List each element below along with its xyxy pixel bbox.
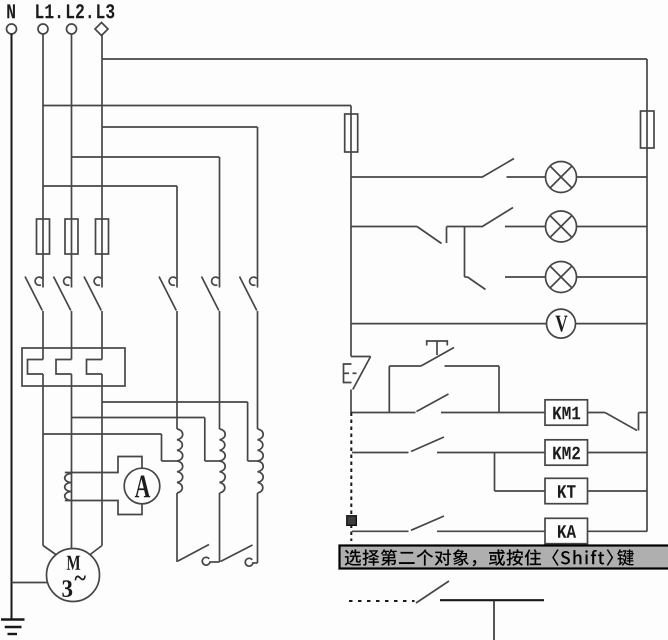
bottom tee wire xyxy=(440,599,544,601)
grip point square xyxy=(347,516,357,526)
terminal L1 xyxy=(38,24,48,34)
contact KM pole 1 xyxy=(176,269,178,288)
wire L1 tap to coil T1 xyxy=(43,433,162,435)
KA rung wire right xyxy=(588,530,648,532)
KA rung wire left xyxy=(352,530,409,532)
KM2 rung contact blade xyxy=(411,437,444,452)
start button SB2 blade xyxy=(421,348,454,367)
wire L3 tap to coil T3 xyxy=(102,401,248,403)
start branch left vertical xyxy=(388,366,390,413)
wire CT to ammeter bottom xyxy=(65,501,142,515)
rung1 wire left xyxy=(351,176,482,178)
terminal N xyxy=(7,24,17,34)
voltmeter wire to right rail xyxy=(576,323,648,325)
wire L1 below thermal relay xyxy=(42,374,44,546)
wire L1 to thermal relay xyxy=(42,311,44,360)
wire L2 to thermal relay xyxy=(71,311,73,360)
lamp HL1 xyxy=(546,162,577,193)
wire L2 branch to column 2 xyxy=(72,156,220,158)
rung3 wire right of switch xyxy=(505,276,546,278)
wire L3 vertical upper xyxy=(101,34,103,269)
switch QS pole 2 xyxy=(71,269,73,288)
voltmeter rung wire left xyxy=(351,323,547,325)
status prompt bar xyxy=(340,546,668,569)
stop button SB1 fixed bar xyxy=(351,356,371,358)
wire coil T3 bottom xyxy=(257,493,259,563)
wire N to motor xyxy=(12,582,49,584)
wire coil T2 bottom xyxy=(219,493,221,562)
contact KM pole 2 xyxy=(219,269,221,288)
coil KA box xyxy=(545,518,588,543)
KT rung wire left xyxy=(495,490,546,492)
terminal L3 (diamond) xyxy=(95,23,108,36)
wire KM2 rung to KT rung xyxy=(494,453,496,492)
thermal relay heater element xyxy=(28,360,44,375)
autotransformer coil T2 xyxy=(220,429,226,493)
autotransformer coil T1 xyxy=(177,429,183,493)
KM1 rung wire mid xyxy=(441,412,545,414)
status prompt text xyxy=(345,549,361,565)
lamp HL3 xyxy=(546,262,577,293)
wire L2 below thermal relay xyxy=(71,374,73,550)
wire L3 to right rail top xyxy=(102,58,647,60)
KM1 rung contact blade xyxy=(417,394,449,412)
wire L1 branch to column 1 xyxy=(43,185,177,187)
voltmeter V xyxy=(547,309,576,338)
KA rung wire mid xyxy=(437,530,545,532)
bottom switch blade xyxy=(416,581,449,603)
start branch wire right xyxy=(445,365,500,367)
wire L3 below thermal relay xyxy=(101,374,103,546)
rung2 wire left xyxy=(351,226,417,228)
wire column1 to coil xyxy=(176,311,178,429)
coil KT box xyxy=(545,478,588,503)
fuse FU3 xyxy=(96,219,109,254)
wire coil T1 bottom xyxy=(176,493,178,562)
rung2 NC contact xyxy=(417,227,442,244)
rung3 wire to right rail xyxy=(577,276,648,278)
terminal label N xyxy=(7,4,15,18)
ammeter A xyxy=(124,468,160,504)
coil KM1 box xyxy=(545,400,588,425)
control right rail xyxy=(646,59,648,532)
control left rail lower xyxy=(350,390,352,414)
stop button SB1 actuator xyxy=(344,364,352,383)
start branch right vertical xyxy=(498,366,500,413)
wire L2 tap to coil T2 xyxy=(72,417,205,419)
contact KM pole 3 xyxy=(257,269,259,288)
coil KM2 box xyxy=(545,440,588,465)
rung1 wire right of switch xyxy=(507,176,546,178)
KM2 rung wire mid xyxy=(437,452,545,454)
switch QS pole 1 xyxy=(42,269,44,288)
star contact 1 hook xyxy=(210,561,220,563)
rung2 wire mid xyxy=(447,226,482,228)
terminal L2 xyxy=(67,24,77,34)
autotransformer coil T3 xyxy=(258,429,264,493)
rung2 switch blade xyxy=(482,208,514,228)
terminal label L2 xyxy=(67,4,74,18)
stop button SB1 blade xyxy=(353,357,371,390)
wire L3 into motor xyxy=(90,546,103,556)
wire CT to ammeter top xyxy=(65,457,142,473)
KT rung wire right xyxy=(588,490,648,492)
wire L1 into motor xyxy=(43,546,57,556)
KM2 rung wire left xyxy=(352,452,409,454)
star contact 2 blade xyxy=(221,545,253,562)
KA rung contact blade xyxy=(411,516,444,530)
rung2 wire right of switch xyxy=(505,226,546,228)
wire L3 branch to column 3 xyxy=(102,126,258,128)
star contact 1 blade xyxy=(178,545,209,562)
start button SB2 actuator xyxy=(427,341,448,346)
rung1 switch blade xyxy=(482,159,515,178)
wire rung2 to rung3 xyxy=(464,227,466,278)
selected wire 2 (dotted) xyxy=(349,600,415,602)
KM2 interlock NC contact xyxy=(588,412,606,414)
start branch wire left xyxy=(389,365,421,367)
motor M 3~ xyxy=(47,549,100,602)
KM1 rung wire left xyxy=(351,412,416,414)
wire L1 to control left rail xyxy=(43,105,351,107)
wire L1 vertical upper xyxy=(42,34,44,269)
wire L2 vertical upper xyxy=(71,34,73,269)
thermal relay FR box xyxy=(22,348,125,386)
current transformer on L2 xyxy=(65,474,72,501)
wire column3 to coil xyxy=(257,311,259,429)
KM2 rung wire right xyxy=(588,452,648,454)
wire L3 to thermal relay xyxy=(101,311,103,360)
fuse FU2 xyxy=(65,219,78,254)
thermal relay heater element xyxy=(56,360,72,375)
rung3 switch blade xyxy=(465,276,468,278)
lamp HL2 xyxy=(546,211,577,242)
fuse FU5 right xyxy=(641,111,655,148)
wire column2 to coil xyxy=(219,311,221,429)
terminal label L1 xyxy=(36,4,43,18)
control left rail upper xyxy=(350,106,352,357)
terminal label L3 xyxy=(97,4,104,18)
rung1 wire to right rail xyxy=(577,176,648,178)
star contact 2 hook xyxy=(252,562,258,564)
switch QS pole 3 xyxy=(101,269,103,288)
wire N vertical xyxy=(11,34,13,619)
thermal relay heater element xyxy=(87,360,103,375)
selected wire (dashed) xyxy=(350,413,352,542)
fuse FU4 left xyxy=(345,114,358,152)
ground symbol xyxy=(1,618,25,620)
rung2 wire to right rail xyxy=(577,226,648,228)
fuse FU1 xyxy=(37,219,50,254)
